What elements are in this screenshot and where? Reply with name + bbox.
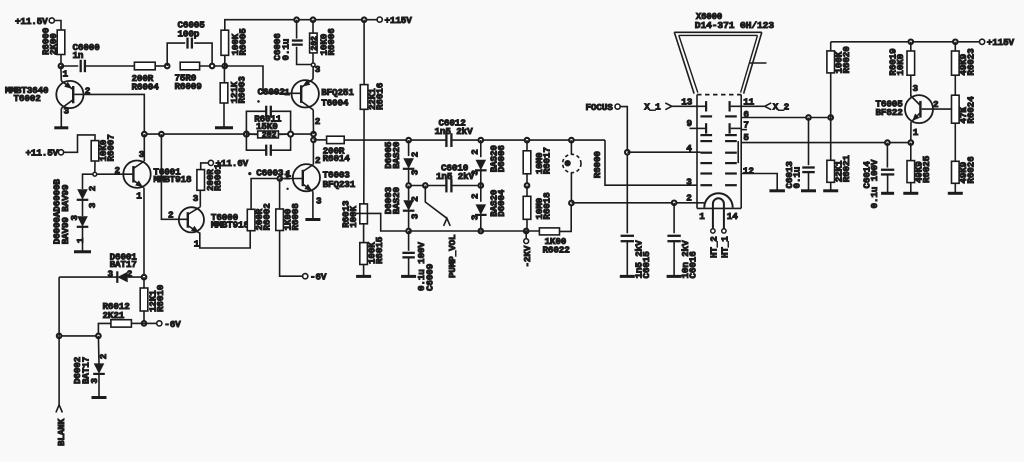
wire R6004 to node: [155, 64, 169, 69]
svg-text:1n: 1n: [73, 50, 84, 61]
svg-text:BAS20: BAS20: [391, 141, 402, 169]
label C6003: [256, 167, 290, 181]
wire rail to T6000 base: [161, 134, 187, 219]
svg-text:+115V: +115V: [385, 15, 413, 26]
wire mid rail: [144, 133, 313, 135]
svg-text:3: 3: [193, 193, 199, 204]
signal X_2 arrow: [741, 102, 789, 113]
wire T6003 emitter to ground: [312, 191, 314, 218]
svg-text:R6020: R6020: [841, 46, 852, 74]
resistor R6020 100K: [827, 42, 852, 118]
svg-text:BAT17: BAT17: [110, 259, 137, 270]
svg-text:+11.6V: +11.6V: [216, 158, 249, 169]
svg-text:1n5 2kV: 1n5 2kV: [435, 126, 474, 137]
ground (D6000B): [74, 250, 91, 253]
resistor R6019 10K0: [888, 42, 915, 97]
resistor R6014 200R: [314, 136, 351, 164]
resistor R6003 121K: [220, 76, 247, 104]
diode D6002 BAT17: [72, 336, 109, 397]
wire R6005 bottom to R6003 top: [223, 55, 225, 83]
svg-text:-2KV: -2KV: [522, 245, 533, 267]
capacitor C6000 1n: [61, 42, 100, 72]
svg-text:D6006: D6006: [496, 145, 507, 173]
svg-text:1: 1: [284, 87, 290, 98]
svg-text:R6022: R6022: [543, 244, 571, 255]
svg-text:HT_2: HT_2: [709, 236, 720, 258]
transistor T6000 MMBT918 (NPN): [168, 193, 249, 249]
ground (R6015): [356, 275, 371, 278]
svg-text:100K: 100K: [348, 206, 359, 228]
CRT heater / cathode: [699, 193, 738, 228]
ground (R6021): [823, 189, 838, 192]
resistor R6011 15K0 (202 box): [246, 113, 290, 140]
svg-text:BF822: BF822: [876, 107, 904, 118]
CRT electrode pin 7: [730, 120, 749, 134]
svg-text:14: 14: [727, 211, 738, 222]
resistor R6010 12K1: [140, 277, 166, 323]
svg-text:R6021: R6021: [841, 155, 852, 183]
resistor R6013 100K (tapped): [341, 200, 368, 228]
capacitor C6016 10n 2kV: [667, 203, 698, 279]
CRT pin 4 label: [686, 143, 692, 154]
wire T6000 collector to R6001: [199, 190, 202, 207]
svg-text:R6005: R6005: [238, 28, 249, 56]
svg-text:R6008: R6008: [290, 203, 301, 231]
capacitor C6015 1n5 2kV: [621, 236, 652, 279]
ground (T6002): [54, 126, 68, 129]
svg-text:C6002: C6002: [258, 86, 286, 97]
svg-text:R6000: R6000: [592, 151, 603, 179]
resistor R6000 2K00: [41, 27, 65, 55]
ground (C6015): [620, 275, 635, 278]
ground (C6014): [881, 192, 894, 195]
svg-text:R6004: R6004: [132, 82, 160, 93]
wire R6002 top to T6003 base node: [251, 179, 280, 210]
capacitor C6013 0.1u: [784, 118, 815, 190]
transistor T6003 BFQ231 (NPN): [286, 155, 356, 207]
ground (R6003): [215, 126, 233, 129]
svg-text:2K00: 2K00: [48, 33, 59, 55]
wire T6000 emitter loop to R6002: [199, 231, 250, 248]
power +11.5V terminal (middle left): [26, 148, 64, 159]
capacitor C6010 1n5 2kV: [436, 163, 475, 193]
svg-text:3: 3: [470, 214, 481, 220]
wire T6004 emitter to node 3: [312, 67, 314, 79]
svg-text:BAS20: BAS20: [391, 186, 402, 214]
svg-text:1: 1: [286, 169, 292, 180]
svg-text:BFQ231: BFQ231: [323, 179, 356, 190]
resistor R6021 22K1: [827, 118, 852, 190]
junction pump bottom: [406, 229, 528, 234]
svg-text:100p: 100p: [178, 29, 200, 40]
wire R6009 to divider node: [200, 64, 228, 69]
capacitor C6002 top (parallel R6011): [246, 106, 290, 134]
svg-text:1: 1: [194, 238, 200, 249]
svg-text:3: 3: [316, 196, 322, 207]
svg-text:MMBT918: MMBT918: [211, 219, 250, 230]
resistor R6001 200R: [197, 163, 224, 191]
resistor R6025 49K9: [907, 143, 932, 193]
ground (R6026): [948, 192, 963, 195]
svg-text:3: 3: [410, 213, 421, 219]
svg-text:R6018: R6018: [542, 192, 553, 220]
svg-text:R6015: R6015: [374, 236, 385, 264]
resistor R6009 75R0: [175, 62, 203, 92]
wire pin5 line: [741, 142, 911, 144]
wire pump line mid: [409, 185, 481, 187]
svg-text:X_2: X_2: [773, 102, 790, 113]
svg-text:2: 2: [933, 99, 939, 110]
svg-text:0.1u: 0.1u: [792, 167, 803, 189]
wire D6000B to ground: [82, 227, 84, 251]
svg-text:R6017: R6017: [542, 147, 553, 174]
ground (C6016): [667, 275, 682, 278]
wire BLANK cross line: [57, 334, 101, 339]
svg-text:0.1u: 0.1u: [281, 39, 292, 61]
wire +11.5V to R6007: [64, 135, 95, 152]
wire R6016 to R6013: [363, 109, 365, 204]
resistor R6015 100K: [360, 236, 385, 264]
signal X_1 arrow: [644, 102, 697, 113]
transistor T6004 BFQ251 (PNP): [292, 79, 355, 127]
junction R6011 left: [244, 132, 249, 137]
label D6000A/D6000B BAV99: [51, 179, 71, 245]
wire T6002 collector to ground: [60, 108, 62, 126]
CRT pin 2 label: [686, 192, 692, 203]
CRT pin 12 ground wire: [741, 165, 777, 190]
svg-text:1: 1: [63, 69, 69, 80]
svg-text:-6V: -6V: [310, 272, 327, 283]
svg-text:202: 202: [262, 131, 277, 140]
wire base node to T6003: [280, 178, 303, 180]
svg-text:3: 3: [470, 170, 481, 176]
svg-text:2: 2: [87, 185, 98, 191]
signal PUMP_VOL: [425, 186, 458, 279]
svg-text:2: 2: [686, 192, 692, 203]
svg-text:R6006: R6006: [326, 28, 337, 56]
node 1 junction: [59, 64, 69, 80]
svg-text:C6009: C6009: [425, 263, 436, 291]
svg-text:+11.5V: +11.5V: [15, 16, 48, 27]
svg-text:1: 1: [699, 211, 705, 222]
wire +11.5V to R6000: [54, 21, 61, 31]
svg-text:1: 1: [136, 191, 142, 202]
capacitor C6006 0.1u: [272, 17, 311, 64]
wire T6001 collector to rail: [143, 134, 145, 161]
resistor R6005 100K: [221, 28, 249, 56]
wire pin6 line: [741, 115, 833, 120]
svg-text:-6V: -6V: [164, 319, 181, 330]
svg-text:+11.5V: +11.5V: [26, 148, 59, 159]
svg-text:X_1: X_1: [644, 102, 661, 113]
svg-text:R6009: R6009: [175, 81, 203, 92]
wire pump line upper right: [451, 139, 605, 141]
wire top +115V rail: [225, 20, 377, 31]
wire pump bottom line: [409, 230, 540, 232]
resistor R6008 1K00: [276, 179, 301, 231]
svg-text:7: 7: [743, 120, 748, 131]
CRT grid bars: [700, 116, 738, 185]
svg-text:2K21: 2K21: [103, 310, 125, 321]
svg-text:2: 2: [315, 116, 321, 127]
resistor R6022 1K00: [539, 228, 570, 255]
CRT deflection plate pin 11 (X_2): [730, 97, 755, 112]
label C6002: [258, 86, 291, 98]
svg-text:2: 2: [168, 209, 174, 220]
svg-text:T6002: T6002: [14, 93, 42, 104]
diode D6005 BAS20: [383, 140, 420, 185]
junction T6003 base node: [278, 176, 283, 181]
power +115V terminal (right): [980, 37, 1015, 48]
power +11.5V terminal (top left): [15, 16, 54, 27]
terminal HT_2: [709, 229, 720, 258]
resistor R6016 22K1: [360, 17, 385, 110]
svg-text:D6004: D6004: [496, 189, 507, 217]
diode D6000B BAV99: [69, 215, 88, 244]
diode D6004 BAS20: [470, 186, 508, 232]
svg-text:R6010: R6010: [155, 284, 166, 312]
svg-text:2: 2: [410, 196, 421, 202]
wire top right +115V rail: [831, 40, 980, 45]
resistor R6012 2K21: [103, 301, 145, 327]
power -6V terminal (R6010): [144, 319, 181, 330]
svg-text:10K0: 10K0: [895, 53, 906, 75]
svg-text:2: 2: [410, 151, 421, 157]
wire node to diodes: [83, 174, 93, 189]
wire R6013 to R6015: [363, 224, 365, 243]
CRT X6000 D14-371 GH/123 funnel: [674, 12, 774, 94]
CRT tube body: [697, 95, 741, 209]
svg-text:R6014: R6014: [323, 153, 351, 164]
wire pin4 line: [627, 151, 700, 153]
svg-text:2: 2: [470, 193, 481, 199]
diode D6003 BAS20: [383, 186, 420, 232]
resistor R6002 200R: [247, 203, 272, 231]
wire T6003 collector to rail node: [311, 132, 316, 165]
junction pump mid: [406, 183, 483, 188]
wire R6000 to tube grid pin 3: [592, 140, 697, 185]
svg-text:R6025: R6025: [921, 155, 932, 183]
wire between BAV99 diodes: [82, 200, 84, 216]
diode D6001 BAT17: [108, 251, 138, 283]
spark gap: [563, 140, 581, 203]
wire FOCUS to pin4 line and C6015: [620, 107, 629, 234]
capacitor C6005 100p (parallel with R6009): [167, 20, 212, 66]
ground (C6013): [801, 189, 816, 192]
transistor T6001 MMBT918 (NPN): [97, 149, 192, 202]
svg-text:12: 12: [743, 165, 754, 176]
resistor R6023 49K9: [952, 42, 977, 95]
svg-text:2: 2: [315, 155, 321, 166]
svg-text:BAV99 BAV99: BAV99 BAV99: [60, 184, 71, 244]
resistor R6004 200R: [132, 62, 160, 92]
ground (D6002): [92, 396, 107, 399]
wire R6022 up to pin2 line: [560, 203, 572, 231]
wire R6000 to node 1: [60, 55, 62, 67]
wire C6000 to R6004: [85, 65, 134, 67]
terminal HT_1: [720, 229, 731, 258]
svg-text:3: 3: [64, 106, 70, 117]
svg-text:D14-371 GH/123: D14-371 GH/123: [695, 20, 775, 31]
svg-text:+115V: +115V: [987, 37, 1015, 48]
svg-text:R6002: R6002: [262, 203, 273, 231]
CRT electrode pin 9: [687, 118, 707, 133]
svg-text:2: 2: [98, 353, 109, 359]
wire D6001 to junction: [128, 275, 147, 280]
capacitor bottom (parallel R6011): [246, 134, 290, 156]
resistor R6017 10M0: [523, 140, 552, 185]
svg-text:2: 2: [470, 149, 481, 155]
wire R6008 to -6V terminal: [280, 231, 303, 277]
junction pin2 line left: [569, 201, 574, 206]
resistor R6006 10K0 (202 box): [310, 17, 337, 62]
diode D6000A BAV99: [77, 185, 98, 208]
svg-text:HT_1: HT_1: [720, 236, 731, 258]
svg-text:R6026: R6026: [966, 156, 977, 184]
power -6V terminal (R6008): [303, 272, 327, 283]
ground (C6009): [401, 275, 416, 278]
transistor T6002 MMBT3640 (PNP): [5, 66, 91, 117]
svg-text:1: 1: [75, 237, 86, 243]
svg-text:MMBT918: MMBT918: [153, 174, 192, 185]
transistor T6005 BF822: [876, 83, 952, 138]
svg-text:BLANK: BLANK: [56, 418, 67, 446]
capacitor C6014 0.1u 100V: [862, 140, 895, 208]
svg-text:R6016: R6016: [375, 82, 386, 110]
wire T6005 emitter to pin5 node: [909, 122, 914, 145]
resistor R6007 10K0: [91, 134, 116, 161]
node R6007/T6001 base: [93, 161, 97, 176]
wire T6004 collector to rail node: [312, 110, 314, 134]
capacitor C6012 1n5 2kV: [435, 118, 474, 147]
CRT pin 3 label: [686, 177, 692, 188]
CRT pin 5 label: [743, 132, 749, 143]
resistor R6018 10M0: [523, 183, 552, 231]
svg-text:3: 3: [87, 202, 98, 208]
svg-text:3: 3: [410, 169, 421, 175]
svg-text:15K0: 15K0: [256, 121, 278, 132]
resistor R6026 49K9: [952, 156, 977, 192]
wire R6013 tap to pump node: [356, 213, 409, 231]
svg-text:3: 3: [913, 83, 919, 94]
ground (R6025): [903, 192, 918, 195]
wire R6015 to ground: [363, 265, 365, 276]
wire R6012 to BLANK junction: [98, 323, 111, 336]
svg-text:BAT17: BAT17: [80, 357, 91, 384]
wire T6001 emitter down: [143, 188, 145, 278]
diode D6006 BAS20: [470, 140, 508, 185]
wire divider node to T6004 base: [225, 66, 301, 93]
svg-text:0.1u 100V: 0.1u 100V: [869, 159, 880, 208]
potentiometer R6024 47K: [952, 95, 977, 161]
junction -6V node: [142, 321, 147, 326]
ground (pin 12): [769, 189, 785, 192]
wire BLANK line to D6001: [59, 276, 117, 278]
svg-text:2: 2: [115, 165, 121, 176]
CRT deflection plate pin 13 (X_1): [681, 97, 706, 112]
svg-text:1: 1: [913, 127, 919, 138]
svg-text:FOCUS: FOCUS: [586, 102, 614, 113]
svg-text:5: 5: [743, 132, 749, 143]
power -2KV terminal: [522, 231, 533, 268]
svg-text:3: 3: [315, 64, 321, 75]
CRT pin 6 label: [743, 109, 749, 120]
signal BLANK: [56, 277, 67, 446]
power +11.6V terminal: [201, 158, 249, 169]
power +115V terminal (left): [377, 15, 412, 26]
svg-text:R6007: R6007: [106, 134, 117, 161]
junction pin2/C6016: [672, 201, 677, 206]
svg-text:T6004: T6004: [321, 97, 349, 108]
ground (T6003): [305, 218, 320, 221]
wire pump line upper: [344, 139, 446, 141]
svg-text:9: 9: [687, 118, 693, 129]
node 3 (T6004 emitter): [311, 63, 320, 75]
speck: [248, 100, 289, 190]
capacitor C6009 0.1u 100V: [402, 231, 435, 291]
svg-text:R6023: R6023: [966, 48, 977, 76]
junction mid rail left: [142, 132, 164, 137]
svg-text:C6015: C6015: [641, 251, 652, 279]
wire pin2 line (cathode): [571, 202, 704, 204]
wire T6002 base to left rail: [84, 94, 145, 134]
svg-text:4: 4: [686, 143, 692, 154]
svg-text:R6003: R6003: [237, 76, 248, 104]
svg-text:R6024: R6024: [966, 96, 977, 124]
svg-text:3: 3: [686, 177, 692, 188]
junction R6011 right: [288, 132, 293, 137]
wire R6003 to ground: [223, 103, 225, 127]
junction pump upper: [406, 138, 573, 143]
svg-text:PUMP_VOL: PUMP_VOL: [447, 234, 458, 278]
svg-text:C6016: C6016: [688, 251, 699, 279]
signal FOCUS terminal: [586, 102, 621, 113]
